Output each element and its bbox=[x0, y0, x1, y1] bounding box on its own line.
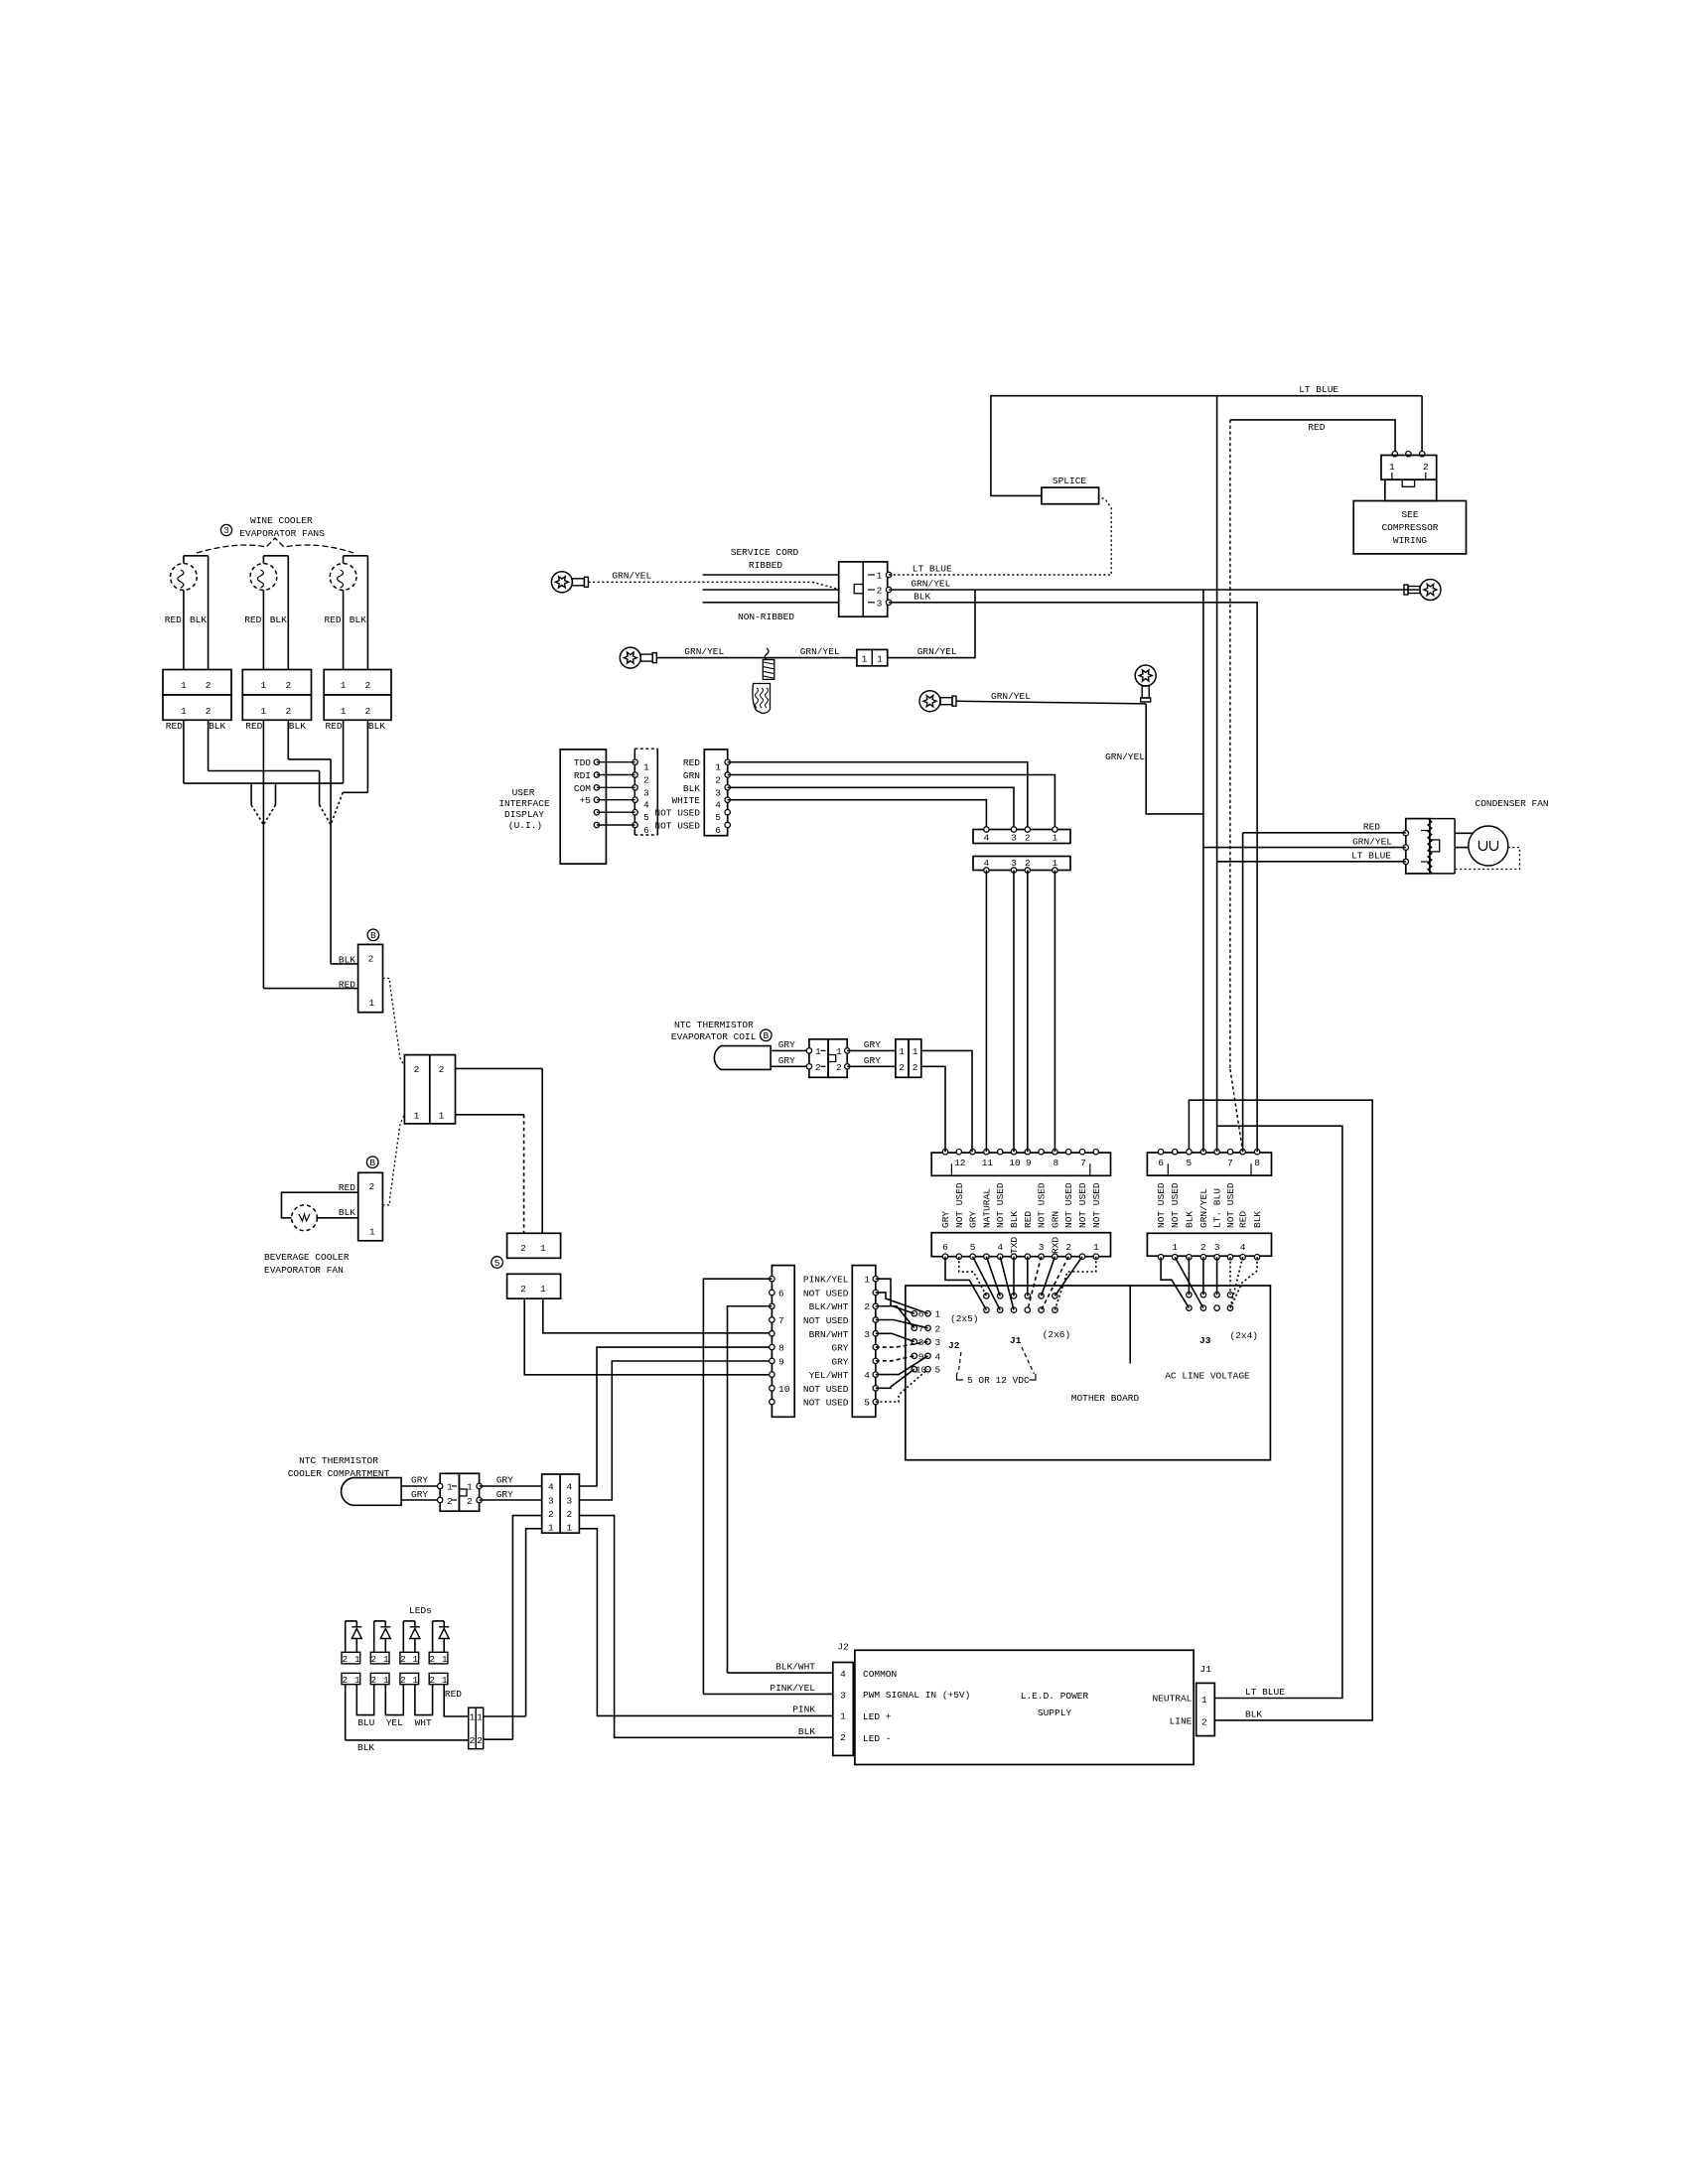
wire GRY to second pair bbox=[847, 1049, 896, 1051]
svg-text:3: 3 bbox=[877, 598, 883, 609]
svg-text:AC LINE VOLTAGE: AC LINE VOLTAGE bbox=[1165, 1371, 1250, 1382]
svg-text:GRY: GRY bbox=[778, 1055, 795, 1066]
svg-text:1: 1 bbox=[181, 680, 187, 691]
svg-text:7: 7 bbox=[1080, 1158, 1086, 1168]
svg-text:PWM SIGNAL IN (+5V): PWM SIGNAL IN (+5V) bbox=[863, 1690, 970, 1701]
svg-text:1: 1 bbox=[1172, 1242, 1178, 1253]
J3 board connector (8-pin) bbox=[1147, 1233, 1271, 1256]
svg-text:1: 1 bbox=[548, 1523, 554, 1534]
svg-text:B: B bbox=[369, 1158, 375, 1168]
svg-text:WINE COOLER: WINE COOLER bbox=[250, 515, 313, 526]
wire LT BLUE from supply bbox=[1214, 1126, 1342, 1698]
svg-text:2: 2 bbox=[1200, 1242, 1206, 1253]
circled B harness tag 2 bbox=[366, 1157, 378, 1168]
svg-text:3: 3 bbox=[1011, 833, 1017, 844]
svg-text:PINK/YEL: PINK/YEL bbox=[770, 1683, 815, 1694]
svg-text:(2x5): (2x5) bbox=[950, 1313, 979, 1324]
UI connector wires bbox=[597, 761, 635, 763]
USER INTERFACE DISPLAY box bbox=[560, 750, 606, 864]
wire 4321 right pin2 BLK down to LED supply bbox=[579, 1516, 832, 1738]
ground screw with ring terminal 3 bbox=[919, 691, 940, 712]
UI board connector (6-pin) bbox=[704, 750, 727, 836]
dotted jumper beverage connector to dual connector bbox=[382, 1115, 404, 1205]
svg-text:WHT: WHT bbox=[415, 1717, 432, 1728]
svg-text:BLK: BLK bbox=[368, 721, 385, 732]
svg-text:NATURAL: NATURAL bbox=[981, 1188, 992, 1228]
svg-text:4: 4 bbox=[1240, 1242, 1246, 1253]
svg-text:1: 1 bbox=[715, 762, 721, 773]
compressor connector bbox=[1392, 452, 1397, 457]
svg-text:3: 3 bbox=[715, 787, 721, 798]
svg-text:10: 10 bbox=[1009, 1158, 1021, 1168]
svg-text:(U.I.): (U.I.) bbox=[508, 820, 542, 831]
svg-text:LINE: LINE bbox=[1170, 1715, 1193, 1726]
fan 2 wire loop bbox=[262, 556, 264, 564]
connector 4321 dual inline bbox=[542, 1474, 580, 1533]
wire fan2 BLK jog right bbox=[288, 758, 331, 760]
svg-text:2: 2 bbox=[429, 1654, 435, 1665]
svg-text:RED: RED bbox=[1023, 1211, 1034, 1228]
fan 1 wire loop bbox=[183, 556, 185, 564]
condenser fan motor bbox=[1469, 826, 1508, 866]
svg-text:NOT USED: NOT USED bbox=[803, 1384, 849, 1395]
svg-text:1: 1 bbox=[261, 680, 267, 691]
svg-text:NOT USED: NOT USED bbox=[1037, 1182, 1048, 1228]
svg-text:BLK: BLK bbox=[357, 1742, 374, 1753]
svg-text:BEVERAGE COOLER: BEVERAGE COOLER bbox=[264, 1252, 350, 1263]
RED funnel arrow bbox=[250, 783, 252, 805]
J1 fan-out wires bbox=[945, 1257, 986, 1310]
svg-text:2: 2 bbox=[1065, 1242, 1071, 1253]
svg-text:1: 1 bbox=[439, 1111, 445, 1122]
svg-text:3: 3 bbox=[643, 787, 649, 798]
beverage fan motor M bbox=[292, 1205, 318, 1231]
wire UI GRN to connector 4321 bbox=[728, 775, 1055, 830]
svg-text:2: 2 bbox=[913, 1062, 918, 1073]
wire fan1 BLK jog right bbox=[209, 770, 320, 772]
svg-text:LED +: LED + bbox=[863, 1711, 892, 1722]
svg-text:RDI: RDI bbox=[574, 770, 591, 781]
svg-text:BLK: BLK bbox=[190, 614, 207, 625]
svg-text:1: 1 bbox=[1389, 462, 1395, 473]
MB J2 header pins bbox=[912, 1311, 916, 1316]
svg-text:LT BLUE: LT BLUE bbox=[1245, 1687, 1285, 1698]
dashed riser to 5-connector pin2 bbox=[523, 1115, 525, 1234]
svg-text:5: 5 bbox=[864, 1398, 870, 1409]
wire GRN/YEL stud drop bbox=[1146, 704, 1203, 814]
svg-text:1: 1 bbox=[1201, 1695, 1207, 1706]
svg-text:RXD: RXD bbox=[1050, 1237, 1060, 1254]
svg-text:3: 3 bbox=[864, 1329, 870, 1340]
L.E.D. POWER SUPPLY box bbox=[855, 1650, 1194, 1764]
svg-text:BLK: BLK bbox=[1252, 1211, 1263, 1228]
svg-text:TXD: TXD bbox=[1009, 1237, 1020, 1254]
svg-text:J3: J3 bbox=[1199, 1335, 1211, 1346]
ground screw with ring terminal bbox=[551, 572, 572, 593]
wire beverage RED bbox=[282, 1192, 358, 1218]
svg-text:SEE: SEE bbox=[1401, 509, 1418, 520]
wire 4321 right pin1 PINK down to LED supply bbox=[579, 1529, 832, 1716]
svg-text:2: 2 bbox=[400, 1675, 406, 1686]
svg-text:1: 1 bbox=[935, 1309, 941, 1320]
svg-text:J2: J2 bbox=[837, 1642, 849, 1653]
svg-text:3: 3 bbox=[567, 1496, 573, 1507]
svg-text:LED -: LED - bbox=[863, 1733, 892, 1744]
supply J2 connector (4-pin) bbox=[833, 1663, 854, 1756]
svg-text:YEL/WHT: YEL/WHT bbox=[809, 1370, 849, 1381]
svg-text:1: 1 bbox=[413, 1675, 419, 1686]
svg-text:12: 12 bbox=[954, 1158, 966, 1168]
condenser fan dotted return bbox=[1455, 848, 1519, 870]
svg-text:GRY: GRY bbox=[496, 1489, 513, 1500]
svg-text:1: 1 bbox=[864, 1275, 870, 1286]
svg-text:LT BLUE: LT BLUE bbox=[1299, 384, 1338, 395]
dotted jumper B1 to dual connector bbox=[383, 979, 405, 1067]
svg-text:BLK/WHT: BLK/WHT bbox=[809, 1301, 849, 1312]
NTC evaporator coil bulb bbox=[714, 1046, 771, 1070]
svg-text:WIRING: WIRING bbox=[1393, 535, 1428, 546]
svg-text:BLK: BLK bbox=[339, 1207, 355, 1218]
svg-text:EVAPORATOR FANS: EVAPORATOR FANS bbox=[239, 528, 325, 539]
series link WHT bbox=[415, 1685, 433, 1715]
J3 fan-out wires bbox=[1161, 1257, 1189, 1307]
svg-text:2: 2 bbox=[365, 706, 371, 717]
dotted LT BLUE from service pin1 to splice bbox=[889, 495, 1111, 575]
svg-text:4: 4 bbox=[567, 1482, 573, 1493]
svg-text:5: 5 bbox=[970, 1242, 976, 1253]
svg-text:EVAPORATOR FAN: EVAPORATOR FAN bbox=[264, 1265, 344, 1276]
wire GRY to 4321 pin3 bbox=[480, 1499, 542, 1501]
svg-text:2: 2 bbox=[285, 706, 291, 717]
svg-text:WHITE: WHITE bbox=[671, 795, 700, 806]
wire GRY bbox=[771, 1049, 809, 1051]
svg-text:EVAPORATOR COIL: EVAPORATOR COIL bbox=[671, 1031, 757, 1042]
svg-text:(2x4): (2x4) bbox=[1230, 1330, 1259, 1341]
svg-text:2: 2 bbox=[1201, 1716, 1207, 1727]
svg-text:J1: J1 bbox=[1200, 1664, 1212, 1675]
circled 3 harness tag bbox=[220, 524, 231, 535]
svg-text:NOT USED: NOT USED bbox=[654, 808, 700, 819]
SEE COMPRESSOR WIRING box bbox=[1353, 501, 1466, 554]
ground splice connector (1-1) bbox=[857, 649, 888, 665]
LED D4 connector upper (2-1) bbox=[429, 1652, 448, 1664]
svg-text:RED: RED bbox=[683, 757, 700, 768]
J2 connector fan-out wires bbox=[876, 1279, 914, 1313]
fan 1 connector (2-pin, mating pair) bbox=[163, 670, 231, 695]
svg-text:1: 1 bbox=[383, 1654, 389, 1665]
LED D1 connector upper (2-1) bbox=[342, 1652, 360, 1664]
svg-text:1: 1 bbox=[442, 1675, 448, 1686]
wire GRY to 4321 pin4 bbox=[480, 1485, 542, 1487]
svg-text:1: 1 bbox=[836, 1046, 842, 1057]
svg-text:NOT USED: NOT USED bbox=[1091, 1182, 1102, 1228]
svg-text:1: 1 bbox=[383, 1675, 389, 1686]
svg-text:1: 1 bbox=[862, 653, 868, 664]
wire LT BLUE down to compressor pin2 bbox=[1421, 396, 1423, 455]
svg-text:NOT USED: NOT USED bbox=[1063, 1182, 1074, 1228]
svg-text:2: 2 bbox=[520, 1243, 526, 1254]
svg-text:1: 1 bbox=[341, 706, 347, 717]
svg-text:GRN: GRN bbox=[683, 770, 700, 781]
svg-text:RED: RED bbox=[339, 980, 355, 991]
wire LED1 pin2 BLK down bbox=[345, 1685, 347, 1740]
MB internal divider bbox=[1129, 1286, 1131, 1364]
connector 5 upper (2-1) bbox=[507, 1233, 561, 1258]
wire GRN/YEL to condenser fan bbox=[1203, 847, 1406, 849]
series link BLU bbox=[356, 1685, 373, 1715]
svg-text:NOT USED: NOT USED bbox=[954, 1182, 965, 1228]
svg-text:1: 1 bbox=[467, 1482, 473, 1493]
svg-text:RED: RED bbox=[1238, 1211, 1249, 1228]
svg-text:2: 2 bbox=[470, 1735, 476, 1746]
svg-text:1: 1 bbox=[369, 1227, 375, 1238]
svg-text:2: 2 bbox=[1423, 462, 1429, 473]
svg-text:2: 2 bbox=[368, 1181, 374, 1192]
svg-text:BLK: BLK bbox=[683, 783, 700, 794]
dashed RED bus down to J3 bbox=[1229, 420, 1231, 1069]
svg-text:1: 1 bbox=[470, 1712, 476, 1723]
svg-text:5 OR 12 VDC: 5 OR 12 VDC bbox=[967, 1375, 1030, 1386]
wire BLK from supply bbox=[1189, 1100, 1372, 1720]
svg-text:MOTHER BOARD: MOTHER BOARD bbox=[1071, 1393, 1140, 1404]
svg-text:GRN/YEL: GRN/YEL bbox=[1352, 836, 1392, 847]
fan motor M3 (wine cooler evaporator fan 3) bbox=[330, 564, 356, 591]
LED D4 connector lower (2-1) bbox=[429, 1673, 448, 1684]
svg-text:DISPLAY: DISPLAY bbox=[504, 809, 544, 820]
svg-text:8: 8 bbox=[778, 1343, 784, 1354]
wire fan2 RED down through funnel bbox=[262, 720, 264, 988]
svg-text:BLK: BLK bbox=[914, 591, 930, 602]
connector 5 lower (2-1) bbox=[507, 1274, 561, 1298]
svg-text:CONDENSER FAN: CONDENSER FAN bbox=[1476, 798, 1549, 809]
svg-text:4: 4 bbox=[984, 858, 990, 869]
LED D2 bbox=[373, 1621, 375, 1652]
svg-text:GRY: GRY bbox=[831, 1343, 848, 1354]
wire 5-conn pin2 down to J2 YEL/WHT bbox=[524, 1298, 772, 1375]
circled B tag bbox=[761, 1029, 773, 1041]
svg-text:2: 2 bbox=[643, 775, 649, 786]
svg-text:1: 1 bbox=[815, 1046, 821, 1057]
svg-text:B: B bbox=[763, 1030, 769, 1041]
ground stud ring terminal (vertical) bbox=[1135, 665, 1156, 686]
svg-text:BRN/WHT: BRN/WHT bbox=[809, 1329, 849, 1340]
svg-text:1: 1 bbox=[899, 1046, 905, 1057]
svg-text:2: 2 bbox=[1025, 858, 1031, 869]
svg-text:B: B bbox=[370, 930, 376, 941]
J1 board connector (12-pin) bbox=[931, 1233, 1110, 1257]
LED D3 connector upper (2-1) bbox=[400, 1652, 419, 1664]
harness connector right half J2 (10-pin) bbox=[852, 1266, 876, 1418]
svg-text:5: 5 bbox=[935, 1365, 941, 1376]
svg-text:8: 8 bbox=[1054, 1158, 1059, 1168]
wire BLK/WHT riser (J2 pin3 to supply) bbox=[728, 1306, 773, 1673]
svg-text:2: 2 bbox=[429, 1675, 435, 1686]
svg-text:BLK: BLK bbox=[350, 614, 366, 625]
wire fan3 BLK down bbox=[366, 720, 368, 792]
GRN/YEL bus vertical bbox=[1202, 590, 1204, 1152]
svg-text:7: 7 bbox=[778, 1315, 784, 1326]
svg-text:4: 4 bbox=[840, 1669, 846, 1680]
wire 4321 right pin4 GRY riser to J2 bbox=[579, 1347, 772, 1486]
svg-text:1: 1 bbox=[567, 1523, 573, 1534]
svg-text:1: 1 bbox=[840, 1711, 846, 1722]
svg-text:1: 1 bbox=[368, 998, 374, 1009]
svg-text:1: 1 bbox=[1053, 858, 1058, 869]
thermistor connector pair (1-2) bbox=[440, 1473, 459, 1511]
NTC thermistor cooler compartment bulb bbox=[342, 1478, 402, 1506]
svg-text:NOT USED: NOT USED bbox=[1225, 1182, 1236, 1228]
svg-text:LT BLUE: LT BLUE bbox=[1351, 851, 1391, 862]
wire 5-conn pin1 down to J2 BRN/WHT bbox=[543, 1298, 773, 1333]
wire BLK bus to connector bbox=[346, 1739, 469, 1741]
BLK funnel arrow left slant bbox=[320, 805, 332, 825]
wire thermistor GRY 1 bbox=[401, 1485, 440, 1487]
LED D1 bbox=[345, 1621, 347, 1652]
series link YEL bbox=[385, 1685, 403, 1715]
svg-text:1: 1 bbox=[1053, 833, 1058, 844]
connector B2 (2-pin, beverage fan) bbox=[358, 1172, 383, 1241]
harness brace (dashed) bbox=[197, 538, 353, 553]
wire PINK/YEL into supply pin3 bbox=[703, 1693, 832, 1695]
svg-text:LT. BLU: LT. BLU bbox=[1212, 1188, 1223, 1228]
wire splice to LT BLUE rail bbox=[991, 396, 1422, 496]
svg-text:NOT USED: NOT USED bbox=[803, 1315, 849, 1326]
wire fan3 BLK jog left bbox=[343, 791, 367, 793]
svg-text:3: 3 bbox=[840, 1690, 846, 1701]
svg-text:3: 3 bbox=[1039, 1242, 1045, 1253]
wire RED rail bbox=[1230, 420, 1395, 454]
svg-text:2: 2 bbox=[342, 1675, 348, 1686]
cord strain relief symbol bbox=[765, 648, 769, 660]
svg-text:4: 4 bbox=[984, 833, 990, 844]
wire GRY bbox=[771, 1065, 809, 1067]
svg-text:9: 9 bbox=[778, 1356, 784, 1367]
svg-text:INTERFACE: INTERFACE bbox=[498, 798, 550, 809]
UI harness connector (6-pin, dashed) bbox=[634, 748, 657, 750]
svg-text:4: 4 bbox=[548, 1482, 554, 1493]
dual inline connector 2-2/1-1 bbox=[404, 1055, 455, 1124]
svg-text:BLK: BLK bbox=[209, 721, 225, 732]
svg-text:2: 2 bbox=[342, 1654, 348, 1665]
SPLICE box bbox=[1042, 487, 1099, 504]
svg-text:1: 1 bbox=[354, 1675, 360, 1686]
svg-text:NOT USED: NOT USED bbox=[1156, 1182, 1167, 1228]
svg-text:2: 2 bbox=[206, 706, 211, 717]
svg-text:6: 6 bbox=[778, 1288, 784, 1298]
svg-text:6: 6 bbox=[715, 825, 721, 836]
svg-text:2: 2 bbox=[840, 1732, 846, 1743]
wire PINK/YEL riser (J2 pin1 to supply) bbox=[703, 1279, 772, 1694]
svg-text:BLK: BLK bbox=[270, 614, 287, 625]
dotted GRN/YEL ground wire bbox=[589, 581, 813, 583]
wire BLK bundle to connector B1 bbox=[331, 963, 358, 965]
svg-text:NOT USED: NOT USED bbox=[803, 1288, 849, 1298]
svg-text:RIBBED: RIBBED bbox=[749, 560, 783, 571]
svg-text:3: 3 bbox=[1214, 1242, 1220, 1253]
svg-text:GRY: GRY bbox=[496, 1475, 513, 1486]
svg-text:4: 4 bbox=[715, 800, 721, 811]
svg-text:9: 9 bbox=[1026, 1158, 1032, 1168]
svg-text:RED: RED bbox=[1363, 822, 1380, 833]
svg-text:RED: RED bbox=[325, 721, 342, 732]
svg-text:1: 1 bbox=[413, 1654, 419, 1665]
svg-text:2: 2 bbox=[477, 1735, 483, 1746]
svg-text:J1: J1 bbox=[1010, 1335, 1022, 1346]
wire BLK bundle vertical bbox=[330, 759, 332, 964]
supply J1 connector (2-pin) bbox=[1196, 1683, 1215, 1735]
svg-text:RED: RED bbox=[339, 1182, 355, 1193]
connector 4-3-2-1 harness half bbox=[973, 830, 1070, 844]
svg-text:BLK/WHT: BLK/WHT bbox=[775, 1662, 815, 1673]
MOTHER BOARD box bbox=[906, 1286, 1271, 1460]
wire LT BLUE to condenser fan bbox=[1217, 861, 1406, 863]
svg-text:NTC THERMISTOR: NTC THERMISTOR bbox=[674, 1020, 754, 1030]
svg-text:NTC THERMISTOR: NTC THERMISTOR bbox=[299, 1455, 378, 1466]
wire GRN/YEL bbox=[656, 657, 857, 659]
fan 3 connector (2-pin, mating pair) bbox=[324, 670, 391, 695]
svg-text:2: 2 bbox=[548, 1509, 554, 1520]
svg-text:5: 5 bbox=[494, 1258, 500, 1269]
svg-text:2: 2 bbox=[899, 1062, 905, 1073]
wire dual pin2 right bbox=[456, 1067, 543, 1069]
svg-text:GRN/YEL: GRN/YEL bbox=[1198, 1188, 1209, 1228]
LED D2 connector lower (2-1) bbox=[370, 1673, 389, 1684]
svg-text:BLK: BLK bbox=[1245, 1709, 1262, 1720]
svg-text:2: 2 bbox=[285, 680, 291, 691]
svg-text:BLK: BLK bbox=[339, 955, 355, 966]
ground screw ring terminal top right bbox=[1420, 580, 1441, 601]
svg-text:3: 3 bbox=[548, 1496, 554, 1507]
svg-text:7: 7 bbox=[1227, 1158, 1233, 1168]
svg-text:L.E.D. POWER: L.E.D. POWER bbox=[1021, 1691, 1089, 1702]
svg-text:GRN/YEL: GRN/YEL bbox=[684, 646, 724, 657]
J1 leader dashed bbox=[1022, 1347, 1035, 1374]
svg-text:8: 8 bbox=[1254, 1158, 1260, 1168]
svg-text:RED: RED bbox=[1308, 422, 1325, 433]
fan 3 wire loop bbox=[343, 556, 345, 564]
svg-text:6: 6 bbox=[1158, 1158, 1164, 1168]
svg-text:3: 3 bbox=[223, 525, 229, 536]
LED D2 connector upper (2-1) bbox=[370, 1652, 389, 1664]
MB J1 header pins bbox=[984, 1294, 989, 1298]
wire GRN/YEL to service pin2 junction bbox=[888, 590, 975, 658]
svg-text:2: 2 bbox=[370, 1654, 376, 1665]
wire RED bundle to connector B1 bbox=[263, 988, 357, 990]
fan 2 connector (2-pin, mating pair) bbox=[242, 670, 311, 695]
wire UI BLK to connector 4321 bbox=[728, 787, 1014, 829]
svg-text:2: 2 bbox=[447, 1496, 453, 1507]
wire BLK from service pin3 bbox=[889, 603, 1257, 1152]
svg-text:NOT USED: NOT USED bbox=[1077, 1182, 1088, 1228]
J2 leader dashed bbox=[957, 1352, 961, 1374]
svg-text:5: 5 bbox=[715, 812, 721, 823]
svg-text:1: 1 bbox=[181, 706, 187, 717]
svg-text:GRY: GRY bbox=[411, 1475, 428, 1486]
svg-text:GRN/YEL: GRN/YEL bbox=[1105, 751, 1145, 762]
svg-text:2: 2 bbox=[1025, 833, 1031, 844]
svg-text:2: 2 bbox=[715, 775, 721, 786]
svg-text:11: 11 bbox=[982, 1158, 994, 1168]
wire fan2 BLK down bbox=[287, 720, 289, 759]
svg-text:GRY: GRY bbox=[968, 1211, 979, 1228]
evap thermistor connector pair bbox=[809, 1039, 828, 1078]
svg-text:COM: COM bbox=[574, 783, 591, 794]
condenser fan connector bbox=[1406, 819, 1430, 874]
wire 4321 left pin2 from LEDs bbox=[512, 1516, 541, 1740]
svg-text:10: 10 bbox=[778, 1384, 790, 1395]
wire beverage BLK bbox=[317, 1217, 357, 1219]
svg-text:2: 2 bbox=[520, 1284, 526, 1295]
